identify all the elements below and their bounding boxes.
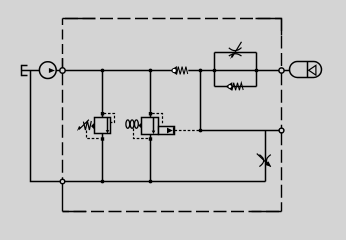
- node dot J6: [101, 180, 105, 184]
- V2 spring: [126, 120, 142, 129]
- junction circle (node line, on boundary): [279, 128, 284, 133]
- V1 pilot line (dashed): [104, 114, 115, 123]
- check valve CV2 (block bottom branch): [226, 83, 243, 91]
- wire: tee down from suction line to bottom rail: [31, 71, 63, 182]
- accumulator A1: [290, 62, 322, 78]
- port dot P2 top: [149, 112, 152, 115]
- wire: throttle branch down to rail: [265, 131, 267, 182]
- wire: boundary to accumulator: [284, 70, 289, 72]
- flow control block: left vertical: [214, 53, 216, 87]
- port dot P1 bottom: [101, 137, 104, 140]
- junction circle (bottom rail, on boundary): [60, 179, 65, 184]
- V1 spring with adjustment arrow: [77, 120, 95, 131]
- wire: main supply line: [56, 70, 171, 72]
- pilot line (dashed) from V2 box to node line: [175, 130, 200, 132]
- node dot J8: [199, 129, 203, 133]
- pressure valve V1 body: [95, 118, 111, 134]
- node dot J7: [149, 180, 153, 184]
- pressure valve V2 body: [142, 118, 159, 135]
- V2 pilot line (dashed): [152, 114, 162, 126]
- boundary dashed box: [63, 19, 282, 212]
- node dot J2 (supply/right valve branch): [149, 69, 153, 73]
- node dot J1 (supply/left valve branch): [101, 69, 105, 73]
- wire: bottom rail: [63, 181, 266, 183]
- V2 pilot stage box: [159, 127, 175, 135]
- port dot P2 bottom: [149, 137, 152, 140]
- wire: E to pump: [22, 70, 40, 72]
- junction circle (pump outlet, on boundary): [60, 68, 65, 73]
- port dot P1 top: [101, 112, 104, 115]
- check valve CV1 on supply line: [171, 67, 188, 75]
- flow control block: right vertical: [256, 53, 258, 87]
- pump P: [39, 62, 56, 79]
- V2 drain line (dashed): [134, 129, 149, 139]
- adjustable throttle T2 (vertical): [257, 154, 271, 167]
- node dot J3 (supply/pilot drop): [199, 69, 203, 73]
- wire: block top branch: [215, 52, 257, 54]
- wire: block bottom branch: [215, 86, 257, 88]
- node dot J5: [255, 69, 259, 73]
- wire: V1 to bottom rail: [102, 134, 104, 182]
- junction circle (supply to accumulator, on boundary): [279, 68, 284, 73]
- wire: node line to right boundary: [201, 130, 282, 132]
- V1 drain line (dashed): [87, 131, 101, 139]
- tank/plug symbol E: [22, 65, 28, 76]
- wire: branch to left valve V1: [102, 71, 104, 118]
- wire: V2 to bottom rail: [150, 135, 152, 182]
- adjustable throttle T1 (block top branch): [229, 42, 242, 60]
- node dot J4: [213, 69, 217, 73]
- wire: drop from supply to node line: [200, 71, 202, 131]
- wire: branch to right valve V2: [150, 71, 152, 118]
